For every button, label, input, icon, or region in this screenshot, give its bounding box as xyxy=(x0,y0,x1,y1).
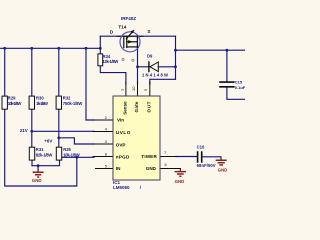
svg-text:C10: C10 xyxy=(197,145,205,150)
svg-text:R32: R32 xyxy=(63,95,71,100)
svg-text:21V: 21V xyxy=(20,128,28,133)
svg-text:nPGD: nPGD xyxy=(116,154,130,159)
svg-text:UVLO: UVLO xyxy=(116,130,131,135)
svg-text:1k-1/8W: 1k-1/8W xyxy=(36,101,48,106)
svg-text:750k-1/8W: 750k-1/8W xyxy=(63,101,83,106)
svg-text:IRF40Z: IRF40Z xyxy=(121,16,136,21)
svg-text:82k-1/8W: 82k-1/8W xyxy=(36,153,53,158)
svg-text:R30: R30 xyxy=(36,95,44,100)
svg-text:OVP: OVP xyxy=(116,142,126,147)
svg-text:D9: D9 xyxy=(147,54,153,59)
svg-text:LM5060: LM5060 xyxy=(113,185,130,190)
svg-text:R35: R35 xyxy=(63,147,71,152)
svg-text:+6V: +6V xyxy=(44,139,52,144)
svg-text:1N4148W: 1N4148W xyxy=(142,73,168,78)
svg-text:OUT: OUT xyxy=(146,101,151,112)
svg-text:T14: T14 xyxy=(118,25,126,30)
svg-text:12k-1/8W: 12k-1/8W xyxy=(103,59,119,64)
svg-text:GND: GND xyxy=(32,178,42,183)
svg-text:10: 10 xyxy=(131,86,136,91)
svg-text:C15: C15 xyxy=(235,80,243,85)
svg-text:GND: GND xyxy=(218,168,228,173)
svg-text:Sense: Sense xyxy=(123,101,128,115)
svg-text:10k-1/8W: 10k-1/8W xyxy=(8,101,22,106)
svg-text:S: S xyxy=(147,29,150,34)
svg-text:R29: R29 xyxy=(8,95,16,100)
svg-text:Gate: Gate xyxy=(134,101,139,112)
svg-text:GND: GND xyxy=(175,179,185,184)
svg-text:IN: IN xyxy=(116,166,121,171)
svg-text:GND: GND xyxy=(146,166,157,171)
svg-text:R31: R31 xyxy=(36,147,44,152)
svg-text:0.1uF: 0.1uF xyxy=(235,85,245,90)
svg-text:TIMER: TIMER xyxy=(141,154,157,159)
svg-text:Vin: Vin xyxy=(117,118,124,123)
svg-text:10k-1/8W: 10k-1/8W xyxy=(63,153,80,158)
svg-text:68nF/50V: 68nF/50V xyxy=(197,163,216,168)
